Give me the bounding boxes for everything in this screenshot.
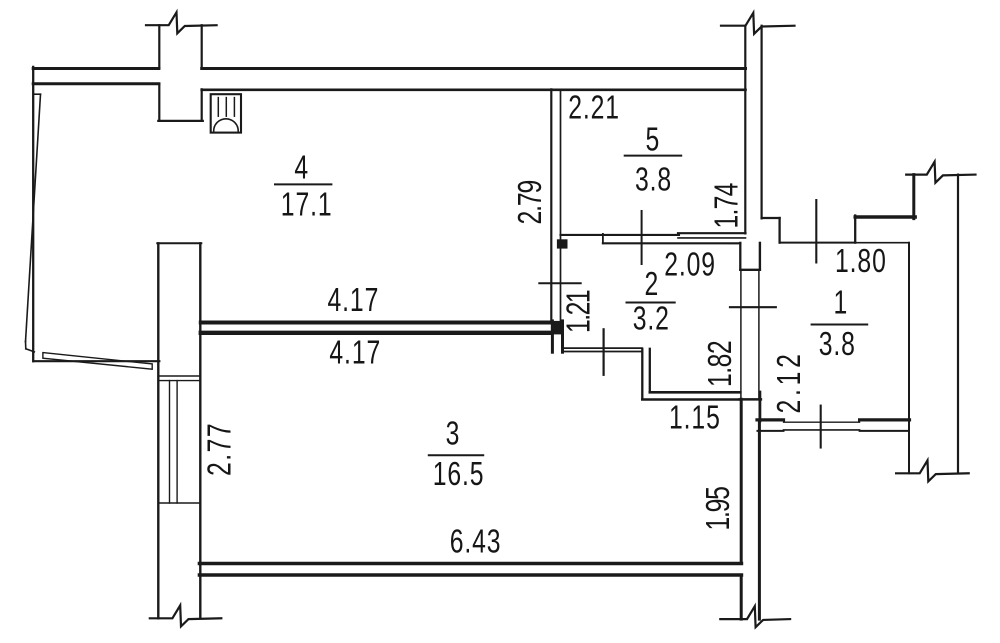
svg-text:4: 4 (294, 150, 309, 186)
svg-text:2.09: 2.09 (664, 247, 716, 283)
svg-text:4.17: 4.17 (328, 283, 380, 319)
svg-text:2.12: 2.12 (772, 350, 808, 413)
svg-text:2: 2 (645, 267, 660, 303)
svg-text:5: 5 (646, 122, 661, 158)
svg-text:2.79: 2.79 (513, 181, 549, 225)
svg-text:3.8: 3.8 (819, 327, 856, 363)
svg-text:2.21: 2.21 (568, 90, 620, 126)
svg-text:4.17: 4.17 (329, 335, 381, 371)
svg-text:1: 1 (834, 285, 849, 321)
svg-text:3.8: 3.8 (635, 162, 672, 198)
svg-text:1.21: 1.21 (561, 290, 597, 333)
svg-text:1.15: 1.15 (669, 400, 721, 436)
svg-text:3.2: 3.2 (633, 301, 670, 337)
svg-text:16.5: 16.5 (433, 457, 485, 493)
svg-text:3: 3 (446, 416, 461, 452)
svg-text:6.43: 6.43 (450, 524, 502, 560)
svg-text:1.74: 1.74 (709, 183, 745, 229)
svg-text:2.77: 2.77 (202, 422, 238, 476)
svg-text:17.1: 17.1 (281, 187, 333, 223)
svg-text:1.82: 1.82 (703, 341, 739, 387)
svg-text:1.95: 1.95 (701, 487, 737, 530)
svg-text:1.80: 1.80 (835, 244, 887, 280)
